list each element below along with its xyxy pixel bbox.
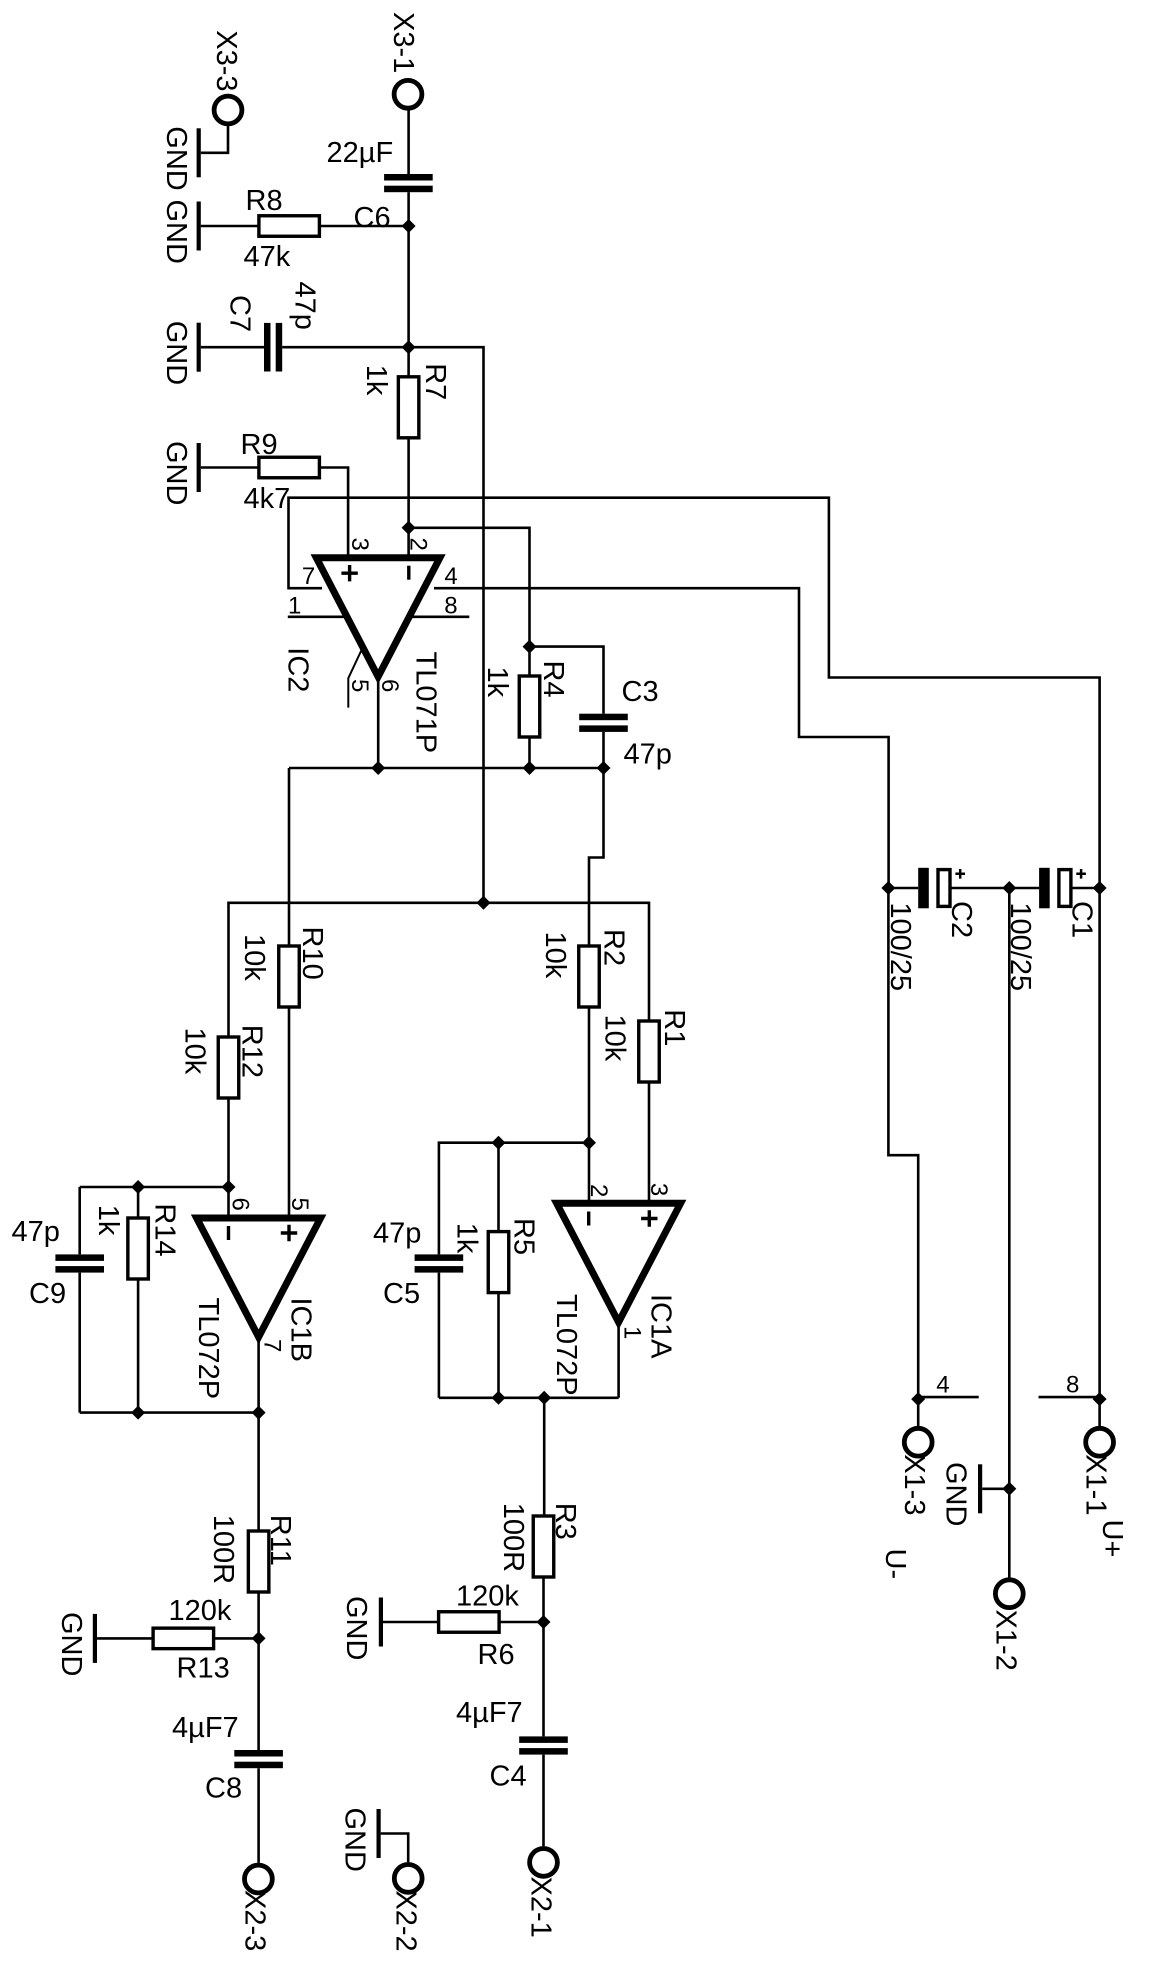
node R14 bottom <box>131 1406 145 1420</box>
capacitor C9 47p <box>55 1254 104 1261</box>
wire R14 to bottom rail <box>137 1279 140 1413</box>
wire GND to R13 <box>97 1637 153 1640</box>
node R3 branch <box>537 1391 551 1405</box>
node C3 bottom <box>597 761 611 775</box>
svg-text:R11: R11 <box>264 1515 296 1566</box>
wire C9 to bottom rail <box>78 1273 81 1413</box>
resistor R6 120k <box>439 1612 500 1633</box>
wire GND to R6 <box>383 1621 439 1624</box>
wire C2 node down to X1-3 <box>888 888 918 1399</box>
wire U+ net from IC2 pin 7 to C1 <box>289 498 1100 888</box>
svg-text:120k: 120k <box>169 1595 232 1627</box>
resistor R7 1k <box>407 347 410 377</box>
wire GND to R8 <box>201 225 259 228</box>
resistor R5 1k <box>497 1143 500 1232</box>
svg-text:X1-3: X1-3 <box>898 1454 930 1515</box>
wire V- net from IC2 pin 4 to C2 <box>434 588 889 888</box>
svg-text:7: 7 <box>259 1339 286 1352</box>
op-amp IC1A TL072P <box>557 1203 681 1322</box>
resistor R13 120k <box>153 1628 214 1649</box>
capacitor C7 47p <box>264 323 271 372</box>
wire node to X1-1 pad <box>1098 1399 1101 1429</box>
op-amp IC1B TL072P <box>197 1218 321 1337</box>
svg-text:TL072P: TL072P <box>550 1294 582 1396</box>
wire R6 to node <box>499 1621 543 1624</box>
svg-text:8: 8 <box>444 593 457 620</box>
node IC2 output <box>371 761 385 775</box>
node R4 top junction <box>523 640 537 654</box>
IC1 power pin 4 stub <box>918 1396 979 1399</box>
svg-text:GND: GND <box>55 1612 87 1676</box>
wire R4 bottom to rail <box>528 737 531 768</box>
svg-text:R10: R10 <box>296 927 328 980</box>
wire R3 to node <box>542 1577 545 1622</box>
ground GND at X1-2 <box>978 1464 982 1513</box>
ground GND at R9 <box>197 443 201 492</box>
IC2 plus input marker <box>341 565 357 581</box>
svg-text:1k: 1k <box>92 1205 124 1236</box>
svg-text:R6: R6 <box>478 1639 515 1671</box>
node C2/C1 middle <box>1002 881 1016 895</box>
svg-text:10k: 10k <box>238 934 270 981</box>
wire R11 to node <box>257 1592 260 1638</box>
svg-text:R2: R2 <box>597 929 629 966</box>
svg-text:GND: GND <box>160 126 192 190</box>
svg-text:GND: GND <box>340 1596 372 1660</box>
ground GND at X3-3 <box>197 128 201 177</box>
svg-text:4: 4 <box>444 563 457 590</box>
wire node right and down to lower rail <box>409 347 484 903</box>
node IC1B output <box>252 1406 266 1420</box>
capacitor C3 47p <box>579 714 628 721</box>
svg-text:GND: GND <box>940 1462 972 1526</box>
wire node to X1-3 pad <box>917 1399 920 1429</box>
wire GND to R9 <box>201 466 259 469</box>
svg-text:5: 5 <box>286 1198 313 1211</box>
svg-text:1k: 1k <box>360 365 392 396</box>
wire R10 to IC1B pin 5 <box>288 1007 291 1218</box>
svg-text:IC1B: IC1B <box>285 1298 317 1362</box>
wire R8 to node <box>319 225 408 228</box>
svg-text:C1: C1 <box>1066 901 1098 938</box>
IC1B minus input marker <box>227 1226 230 1240</box>
svg-text:47p: 47p <box>288 282 320 330</box>
svg-text:22µF: 22µF <box>327 137 394 169</box>
IC2 pin 6 output wire <box>377 676 380 767</box>
node X1-2 GND junction <box>1002 1482 1016 1496</box>
capacitor C4 4uF7 <box>519 1736 568 1743</box>
wire node to C4 <box>542 1622 545 1736</box>
svg-text:8: 8 <box>1066 1372 1079 1399</box>
svg-text:GND: GND <box>160 441 192 505</box>
connector pad X1-3 <box>904 1428 932 1456</box>
resistor R14 1k <box>137 1187 140 1218</box>
node R7/pin2 junction <box>402 521 416 535</box>
capacitor C8 4uF7 <box>234 1750 283 1757</box>
connector pad X3-1 <box>394 80 422 108</box>
svg-text:R3: R3 <box>549 1503 581 1540</box>
svg-text:X1-2: X1-2 <box>990 1610 1022 1671</box>
capacitor C1 100/25 electrolytic <box>1009 887 1039 890</box>
resistor R2 10k <box>579 946 600 1007</box>
node C7 junction <box>402 340 416 354</box>
node C2 left <box>881 881 895 895</box>
svg-text:2: 2 <box>405 538 432 551</box>
svg-text:X3-3: X3-3 <box>210 30 242 91</box>
wire R13 to node <box>214 1637 259 1640</box>
node R5 bottom <box>492 1391 506 1405</box>
svg-text:100R: 100R <box>497 1503 529 1572</box>
svg-text:3: 3 <box>346 538 373 551</box>
svg-text:R14: R14 <box>149 1203 181 1256</box>
connector pad X2-1 <box>530 1849 558 1877</box>
node lower rail junction <box>477 896 491 910</box>
svg-text:3: 3 <box>645 1183 672 1196</box>
ground GND at R8 <box>197 202 201 251</box>
connector pad X1-1 <box>1086 1428 1114 1456</box>
wire IC1A bottom rail <box>439 1397 619 1400</box>
svg-text:C6: C6 <box>354 202 391 234</box>
svg-text:10k: 10k <box>539 932 571 979</box>
resistor R12 10k <box>218 1037 239 1098</box>
svg-text:5: 5 <box>346 679 373 692</box>
wire R3 branch down to R3 <box>543 1398 546 1516</box>
svg-text:C7: C7 <box>224 295 256 332</box>
resistor R10 10k <box>279 946 300 1007</box>
wire node to C8 <box>257 1638 260 1750</box>
svg-text:C4: C4 <box>490 1760 527 1792</box>
node X1-1 junction <box>1093 1392 1107 1406</box>
connector pad X2-2 <box>394 1865 422 1893</box>
wire IC1A output to rail <box>617 1322 620 1398</box>
ground GND at X2-2 <box>377 1809 381 1858</box>
wire C5 to bottom rail <box>438 1273 441 1398</box>
wire IC1B output down to R11 <box>257 1413 260 1531</box>
IC2 minus input marker <box>407 566 410 580</box>
wire R9 to IC2 pin 3 <box>319 468 348 558</box>
wire C8 to X2-3 pad <box>257 1768 260 1863</box>
wire GND to X1-2 wire <box>982 1488 1009 1491</box>
connector pad X3-3 <box>214 96 242 124</box>
wire R5/C5 top rail <box>439 1143 589 1255</box>
wire X3-3 to GND <box>201 124 228 153</box>
svg-text:47p: 47p <box>373 1218 421 1250</box>
op-amp IC2 TL071P <box>316 558 440 677</box>
wire R1 to IC1A pin 3 <box>648 1082 651 1203</box>
IC2 pin 2 wire <box>407 528 410 558</box>
svg-text:GND: GND <box>160 321 192 385</box>
svg-text:10k: 10k <box>178 1028 210 1075</box>
svg-text:1: 1 <box>288 593 301 620</box>
wire R12 to node <box>227 1098 230 1187</box>
svg-text:4k7: 4k7 <box>244 483 291 515</box>
node R5 top <box>492 1136 506 1150</box>
wire C4 to X2-1 pad <box>542 1755 545 1847</box>
wire GND to X2-2 pad <box>381 1834 409 1863</box>
svg-text:C9: C9 <box>29 1278 66 1310</box>
wire C1 node down to X1-1 <box>1098 888 1101 1399</box>
wire C7 to node <box>282 346 408 349</box>
connector pad X2-3 <box>245 1865 273 1893</box>
wire rail to R10 <box>288 768 291 946</box>
svg-text:R9: R9 <box>241 429 278 461</box>
svg-text:X3-1: X3-1 <box>387 12 419 73</box>
resistor R1 10k <box>639 1021 660 1082</box>
svg-text:C5: C5 <box>383 1278 420 1310</box>
svg-text:TL072P: TL072P <box>192 1298 224 1400</box>
IC1B plus input marker <box>281 1225 297 1241</box>
svg-text:47p: 47p <box>624 739 672 771</box>
ground GND at R13 <box>93 1614 97 1663</box>
svg-text:1k: 1k <box>451 1223 483 1254</box>
wire R2 to node <box>588 1007 591 1143</box>
svg-text:C3: C3 <box>622 676 659 708</box>
svg-text:47k: 47k <box>244 241 291 273</box>
IC1A plus input marker <box>641 1210 657 1226</box>
svg-text:6: 6 <box>376 679 403 692</box>
wire IC1B bottom rail <box>80 1411 259 1414</box>
wire IC1B output to rail <box>257 1337 260 1413</box>
wire C3 net down to R2 <box>589 768 604 946</box>
node R14 top <box>131 1180 145 1194</box>
svg-text:X2-3: X2-3 <box>239 1890 271 1951</box>
svg-text:100R: 100R <box>207 1515 239 1584</box>
IC2 pin 5 stub <box>348 649 362 708</box>
svg-text:2: 2 <box>585 1184 612 1197</box>
wire IC2 output rail <box>289 767 604 770</box>
node X1-3 junction <box>911 1392 925 1406</box>
svg-text:GND: GND <box>339 1808 371 1872</box>
svg-text:X2-1: X2-1 <box>525 1877 557 1938</box>
svg-text:1: 1 <box>619 1326 646 1339</box>
svg-text:X2-2: X2-2 <box>390 1890 422 1951</box>
node R3/R6/C4 junction <box>537 1615 551 1629</box>
svg-text:IC1A: IC1A <box>645 1294 677 1359</box>
wire middle node down to X1-2 <box>1008 888 1011 1489</box>
wire rail to C9 <box>78 1187 81 1254</box>
node R12/pin6 junction <box>222 1180 236 1194</box>
svg-text:R1: R1 <box>658 1009 690 1046</box>
svg-text:C2: C2 <box>945 901 977 938</box>
svg-text:R12: R12 <box>235 1025 267 1078</box>
wire node to X1-2 pad <box>1008 1489 1011 1581</box>
IC2 pin 8 stub <box>409 615 470 618</box>
capacitor C6 22uF <box>384 174 433 181</box>
IC1A minus input marker <box>587 1212 590 1226</box>
resistor R3 100R <box>533 1516 554 1577</box>
svg-text:X1-1: X1-1 <box>1080 1454 1112 1515</box>
wire R5 to bottom rail <box>497 1293 500 1398</box>
wire C9/R14 top rail <box>80 1186 229 1189</box>
svg-text:U+: U+ <box>1096 1520 1128 1558</box>
svg-text:R4: R4 <box>537 661 569 698</box>
svg-text:U-: U- <box>879 1549 911 1580</box>
svg-text:47p: 47p <box>12 1216 60 1248</box>
resistor R11 100R <box>248 1531 269 1592</box>
node C1 right <box>1093 881 1107 895</box>
wire C3 to rail <box>602 732 605 768</box>
wire node to C7 node <box>407 226 410 347</box>
node R11/R13/C8 junction <box>252 1631 266 1645</box>
svg-text:1k: 1k <box>481 667 513 698</box>
IC2 pin 1 stub <box>288 615 345 618</box>
node R2/pin2 junction <box>582 1136 596 1150</box>
svg-text:4µF7: 4µF7 <box>172 1712 239 1744</box>
svg-text:7: 7 <box>302 563 315 590</box>
svg-text:10k: 10k <box>598 1015 630 1062</box>
wire R7 to node <box>407 438 410 528</box>
wire lower rail R12 to R1 <box>229 903 650 1037</box>
svg-text:IC2: IC2 <box>282 647 314 692</box>
node C6/R8 junction <box>402 219 416 233</box>
svg-text:4: 4 <box>936 1372 949 1399</box>
resistor R4 1k <box>528 647 531 676</box>
wire R4 top to C3 <box>530 647 604 714</box>
svg-text:6: 6 <box>226 1198 253 1211</box>
resistor R9 4k7 <box>259 457 320 478</box>
svg-text:120k: 120k <box>456 1581 519 1613</box>
svg-text:R13: R13 <box>177 1652 230 1684</box>
connector pad X1-2 <box>995 1580 1023 1608</box>
svg-text:TL071P: TL071P <box>409 652 441 754</box>
wire X3-1 to C6 <box>407 108 410 174</box>
resistor R8 47k <box>259 216 320 237</box>
wire GND to C7 <box>201 346 264 349</box>
svg-text:R5: R5 <box>508 1218 540 1255</box>
ground GND at R6 <box>379 1598 383 1647</box>
svg-text:4µF7: 4µF7 <box>456 1697 523 1729</box>
ground GND at C7 <box>197 323 201 372</box>
capacitor C2 100/25 electrolytic <box>888 887 918 890</box>
node R4 bottom <box>523 761 537 775</box>
wire C6 to node <box>407 192 410 226</box>
svg-text:GND: GND <box>160 200 192 264</box>
svg-text:C8: C8 <box>205 1773 242 1805</box>
wire R12 to IC1B pin 6 <box>227 1187 230 1218</box>
wire R2 node to IC1A pin 2 <box>588 1143 591 1204</box>
wire IC2 pin2 branch to R4 <box>409 528 530 647</box>
svg-text:R7: R7 <box>419 363 451 400</box>
svg-text:R8: R8 <box>246 185 283 217</box>
IC1 power pin 8 stub <box>1039 1396 1100 1399</box>
capacitor C5 47p <box>415 1254 464 1261</box>
